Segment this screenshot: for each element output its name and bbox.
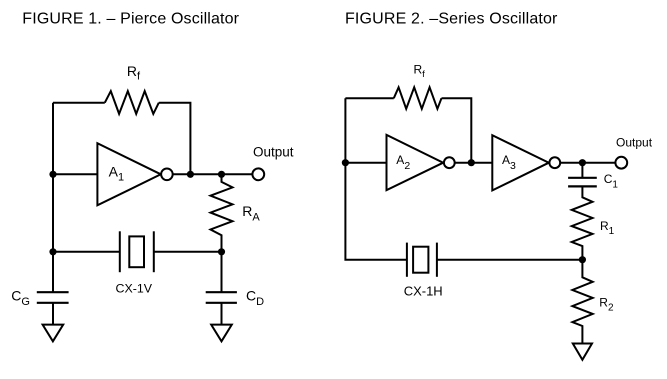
wire fig1 crystal rail right bbox=[154, 251, 222, 253]
resistor R2 bbox=[572, 260, 592, 344]
resistor Rf bbox=[105, 91, 159, 114]
wire fig1 top rail right with drop to output node bbox=[159, 103, 191, 175]
junction dot fig2 crystal node bbox=[579, 256, 586, 263]
wire fig2 left rail down to crystal bbox=[345, 98, 407, 260]
wire fig1 left rail bbox=[52, 103, 54, 293]
ground fig1 left bbox=[43, 325, 64, 342]
capacitor CD bbox=[206, 252, 237, 325]
inverter U A1 bbox=[97, 143, 172, 205]
output terminal fig2 bbox=[615, 157, 627, 169]
svg-text:CX-1V: CX-1V bbox=[116, 281, 153, 295]
wire fig1 input (left rail to A1) bbox=[53, 173, 97, 175]
ground fig1 right bbox=[211, 325, 232, 342]
wire fig1 output line bbox=[173, 173, 253, 175]
resistor R1 bbox=[572, 186, 593, 259]
wire fig2 output line bbox=[560, 162, 615, 164]
wire fig2 top rail left bbox=[345, 97, 393, 99]
wire fig2 crystal rail right bbox=[437, 259, 583, 261]
crystal Y CX-1H bbox=[407, 243, 437, 277]
wire fig1 crystal rail left bbox=[53, 251, 120, 253]
svg-text:R2: R2 bbox=[599, 296, 614, 314]
svg-text:Output: Output bbox=[616, 135, 653, 149]
inverter U A2 bbox=[387, 135, 455, 190]
wire fig2 between A2 and A3 bbox=[455, 162, 493, 164]
junction dot fig1 feedback/output bbox=[187, 171, 194, 178]
svg-text:Rf: Rf bbox=[127, 63, 141, 83]
junction dot fig2 feedback bbox=[468, 159, 475, 166]
ground fig2 bbox=[573, 344, 592, 360]
svg-text:CD: CD bbox=[246, 288, 264, 308]
junction dot fig1 RA top bbox=[218, 171, 225, 178]
svg-text:CX-1H: CX-1H bbox=[404, 284, 443, 299]
wire fig2 input (left rail to A2) bbox=[345, 162, 386, 164]
svg-text:Output: Output bbox=[253, 145, 294, 160]
svg-text:A1: A1 bbox=[109, 164, 124, 184]
svg-text:FIGURE 1. – Pierce Oscillator: FIGURE 1. – Pierce Oscillator bbox=[22, 11, 239, 28]
svg-text:RA: RA bbox=[242, 203, 260, 224]
svg-text:A2: A2 bbox=[396, 153, 410, 172]
svg-text:FIGURE 2. –Series Oscillator: FIGURE 2. –Series Oscillator bbox=[345, 11, 558, 28]
wire fig2 top rail right with drop bbox=[442, 98, 472, 163]
inverter U A3 bbox=[492, 135, 560, 190]
junction dot fig2 output node bbox=[579, 159, 586, 166]
junction dot node fig1 input bbox=[49, 171, 56, 178]
output terminal fig1 bbox=[252, 168, 264, 180]
svg-text:CG: CG bbox=[11, 288, 30, 308]
svg-text:Rf: Rf bbox=[414, 62, 426, 80]
junction dot fig2 input bbox=[342, 159, 349, 166]
junction dot fig1 crystal right bbox=[218, 248, 225, 255]
capacitor C1 bbox=[568, 163, 597, 187]
svg-text:C1: C1 bbox=[604, 172, 619, 190]
resistor RA bbox=[211, 174, 233, 252]
svg-text:A3: A3 bbox=[502, 153, 516, 172]
junction dot fig1 crystal left bbox=[49, 248, 56, 255]
svg-text:R1: R1 bbox=[600, 219, 615, 237]
wire fig1 top rail left bbox=[53, 102, 105, 104]
resistor Rf fig2 bbox=[394, 87, 442, 109]
capacitor CG bbox=[37, 292, 69, 324]
crystal Y CX-1V bbox=[120, 231, 154, 272]
